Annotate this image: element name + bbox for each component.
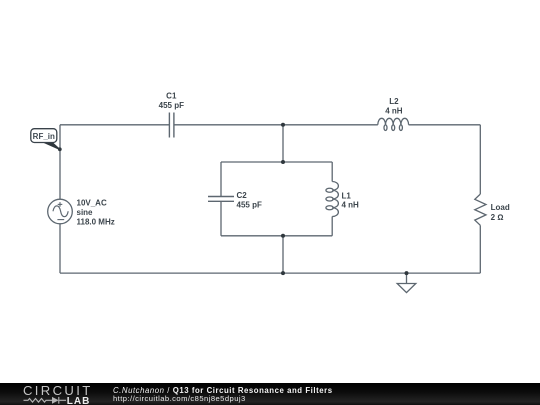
node RF_in flag tail [42, 142, 60, 150]
wire: left rail upper (corner down to source V1 top) [59, 125, 61, 200]
wire: right rail upper (corner to Load top) [479, 125, 481, 194]
wire: stub from top rail node down to tank top [282, 125, 284, 162]
wire: bottom rail [60, 272, 480, 274]
svg-text:455 pF: 455 pF [159, 101, 184, 110]
resistor Load (right rail) [475, 194, 486, 225]
svg-text:C1: C1 [166, 91, 177, 100]
node RF_in flag box [31, 129, 57, 143]
resistor Load labels [491, 203, 510, 222]
wire: top middle segment from C1 right plate to L2 left lead [174, 124, 378, 126]
svg-text:LAB: LAB [67, 396, 91, 405]
svg-text:L1: L1 [342, 192, 352, 201]
wire: top left segment from node RF_in corner to C1 left plate [60, 124, 169, 126]
inductor L1 (tank, right edge) [326, 182, 339, 217]
voltage source V1 sine wave [53, 206, 68, 217]
svg-text:2 Ω: 2 Ω [491, 213, 504, 222]
capacitor C1 (series, top) [169, 113, 174, 138]
ground symbol [397, 284, 416, 293]
node junction dot at ground [405, 271, 409, 275]
svg-text:RF_in: RF_in [33, 132, 55, 141]
node junction dot at tank bottom [281, 234, 285, 238]
svg-text:sine: sine [77, 208, 94, 217]
svg-text:4 nH: 4 nH [342, 200, 360, 209]
voltage source V1 plus sign [58, 202, 63, 207]
wire: tank right edge below L1 [331, 217, 333, 236]
voltage source V1 minus sign [57, 219, 64, 221]
footer credit text [113, 386, 333, 395]
wire: stub from tank bottom down to bottom rail [282, 236, 284, 273]
svg-text:C2: C2 [237, 191, 248, 200]
inductor L2 labels [385, 97, 403, 115]
svg-text:10V_AC: 10V_AC [77, 198, 107, 207]
svg-text:118.0 MHz: 118.0 MHz [77, 218, 115, 227]
wire: tank right edge above L1 [331, 162, 333, 182]
wire: tank top edge [221, 161, 332, 163]
capacitor C1 labels [159, 91, 184, 110]
inductor L2 (series, top right) [378, 118, 409, 130]
capacitor C2 (tank, left edge) [208, 197, 234, 202]
inductor L1 labels [342, 192, 360, 210]
svg-text:4 nH: 4 nH [385, 106, 403, 115]
svg-text:Load: Load [491, 203, 510, 212]
wire: top right segment from L2 right lead to right rail corner [409, 124, 481, 126]
svg-text:455 pF: 455 pF [237, 201, 262, 210]
wire: left rail lower (source V1 bottom to bottom rail) [59, 224, 61, 273]
node junction dot at tank top [281, 160, 285, 164]
wire: tank left edge below C2 [220, 201, 222, 236]
voltage source V1 circle [48, 199, 73, 224]
node junction dot at bottom rail / tank stub [281, 271, 285, 275]
wire: ground stem [406, 273, 408, 283]
CircuitLab logo [0, 383, 110, 405]
node junction dot at top rail / tank stub [281, 123, 285, 127]
footer bar [0, 383, 540, 405]
wire: right rail lower (Load bottom to bottom rail) [479, 225, 481, 273]
svg-text:L2: L2 [389, 97, 399, 106]
voltage source V1 labels [77, 198, 115, 226]
wire: tank bottom edge [221, 235, 332, 237]
capacitor C2 labels [237, 191, 262, 210]
wire: tank left edge above C2 [220, 162, 222, 197]
